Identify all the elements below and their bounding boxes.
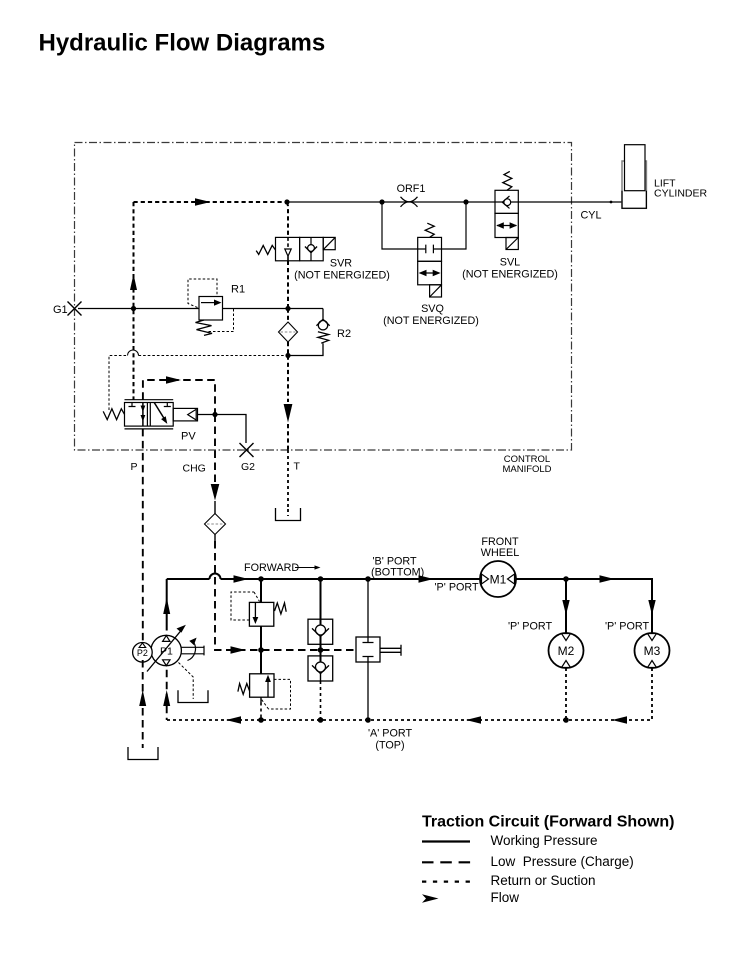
filter screen on return [279, 322, 298, 342]
svg-text:P: P [131, 461, 138, 473]
wire: supply dashed vertical x=133 (P to top line) [133, 202, 135, 400]
svg-text:'P' PORT: 'P' PORT [435, 582, 480, 594]
wire: return dashed with flow arrow to T [287, 356, 289, 403]
node: junction ORF1 left [379, 199, 384, 204]
relief valve R1 [196, 297, 223, 336]
R1 pilot dashed loop [188, 279, 217, 308]
wire: M2 return dotted [565, 668, 567, 720]
check valve 2 (A side) [320, 650, 322, 662]
wire: SVQ loop left vertical [382, 202, 418, 249]
flow arrow right on supply line [195, 198, 211, 205]
svg-text:Low Pressure (Charge): Low Pressure (Charge) [491, 854, 634, 869]
node: junction return/check2 [318, 717, 324, 723]
node: junction forward/check1 [318, 576, 324, 582]
svg-text:CYL: CYL [581, 210, 602, 222]
wire: forward pressure line [166, 579, 168, 631]
node: junction forward/B port [365, 576, 371, 582]
svg-text:SVL: SVL [500, 257, 520, 269]
node: junction PV/charge [212, 412, 217, 417]
flow arrow up on supply line [130, 274, 137, 290]
relief valve 2 [238, 674, 274, 697]
svg-text:M2: M2 [558, 644, 575, 658]
node: junction charge/check [318, 647, 324, 653]
svg-text:PV: PV [181, 431, 196, 443]
svg-text:G1: G1 [53, 304, 68, 316]
node: junction supply/G1 [131, 306, 136, 311]
P1 variable displacement arrow [147, 631, 181, 672]
wire: M3 return dotted [651, 668, 653, 720]
valve SVL [495, 171, 518, 249]
legend low pressure [422, 861, 471, 863]
svg-text:Traction Circuit (Forward Show: Traction Circuit (Forward Shown) [422, 814, 674, 831]
wire: charge line CHG down through border [214, 415, 216, 483]
node: junction charge/relief [258, 647, 264, 653]
wire: return dashed x=288 above SVR [287, 202, 288, 237]
test point G1 [68, 302, 82, 316]
valve SVR [256, 237, 335, 260]
node: junction return/A port [365, 717, 371, 723]
svg-text:T: T [294, 461, 301, 473]
svg-text:SVR: SVR [330, 258, 352, 270]
tank P2 [128, 747, 158, 760]
svg-text:(NOT ENERGIZED): (NOT ENERGIZED) [294, 270, 390, 282]
wire: SVQ loop right vertical [442, 202, 467, 249]
wire: supply dashed horizontal y=202 [134, 201, 288, 203]
control manifold enclosure [75, 143, 572, 451]
valve SVQ [418, 223, 442, 297]
node: junction forward/M2 [563, 576, 569, 582]
node: junction top line [284, 199, 289, 204]
wire: PV pilot output solid [198, 415, 247, 444]
wire: G1 line right segment [223, 308, 324, 310]
motor M2 [549, 633, 584, 668]
wire: return dashed x=288 SVR to G1 line [287, 261, 289, 309]
wire: return dashed to filter [287, 309, 289, 323]
wire: charge dash-dot loop from PV top [143, 380, 215, 415]
svg-text:Flow: Flow [491, 890, 520, 905]
legend working pressure [422, 840, 470, 842]
svg-text:CHG: CHG [183, 463, 206, 475]
node: CYL line endpoint [610, 201, 613, 204]
wire: relief2 connections [260, 650, 262, 674]
svg-text:CYLINDER: CYLINDER [654, 188, 708, 200]
check ball in SVR [308, 245, 315, 252]
wire: pilot dashed y=355.5 with hop over supply line [109, 356, 128, 411]
wire: P1 case drain [179, 663, 194, 700]
svg-text:ORF1: ORF1 [397, 183, 426, 195]
svg-text:M3: M3 [644, 644, 661, 658]
svg-text:(TOP): (TOP) [375, 740, 404, 752]
check valve 1 (B side) [320, 579, 322, 625]
node: junction forward/relief1 [258, 576, 264, 582]
tank case drain [178, 690, 208, 702]
svg-text:SVQ: SVQ [421, 303, 444, 315]
node: junction ORF1 right [463, 199, 468, 204]
check ball in SVL [504, 199, 511, 206]
motor M1 [480, 561, 516, 597]
svg-text:MANIFOLD: MANIFOLD [502, 464, 551, 475]
wire: relief1 connections [260, 579, 262, 650]
svg-text:(NOT ENERGIZED): (NOT ENERGIZED) [462, 269, 558, 281]
SVR left box return path [287, 237, 289, 247]
valve PV [103, 400, 197, 429]
motor M3 [635, 633, 670, 668]
node: junction return/G1 [285, 306, 290, 311]
wire: G1 line left segment [78, 308, 199, 310]
wire: return line below T port [287, 450, 289, 509]
svg-text:'P' PORT: 'P' PORT [508, 621, 553, 633]
svg-text:M1: M1 [490, 573, 507, 587]
wire: M2 feed [565, 579, 567, 633]
node: junction return/pilot [285, 353, 290, 358]
svg-text:G2: G2 [241, 461, 255, 473]
wire: charge line to traction circuit [215, 541, 356, 650]
check valve R2 [322, 309, 324, 320]
svg-text:R2: R2 [337, 328, 351, 340]
flushing shuttle valve [367, 579, 369, 637]
legend return or suction [422, 880, 471, 882]
relief valve 1 [249, 602, 286, 626]
svg-text:'P' PORT: 'P' PORT [605, 621, 650, 633]
orifice ORF1 [401, 197, 418, 207]
legend flow arrow [422, 894, 439, 902]
wire: return/suction dotted line y=720 [167, 719, 652, 721]
wire: CYL solid line to lift cylinder [287, 201, 622, 203]
svg-text:Working Pressure: Working Pressure [491, 833, 598, 848]
node: junction return/relief2 [258, 717, 264, 723]
lift cylinder [622, 161, 646, 208]
svg-text:'A' PORT: 'A' PORT [368, 728, 413, 740]
svg-text:R1: R1 [231, 284, 245, 296]
svg-text:WHEEL: WHEEL [481, 547, 519, 559]
wire: forward line after M1 [516, 579, 652, 633]
tank T [276, 508, 301, 521]
svg-text:FORWARD: FORWARD [244, 562, 299, 574]
wire: P line below manifold [142, 429, 144, 643]
svg-text:(NOT ENERGIZED): (NOT ENERGIZED) [383, 315, 479, 327]
wire: return dashed filter to pilot junction [287, 342, 289, 356]
filter on charge line [205, 514, 226, 535]
svg-text:Hydraulic Flow Diagrams: Hydraulic Flow Diagrams [39, 30, 326, 57]
wire: P2 suction to tank [142, 660, 144, 748]
wire: P1 suction from return line [166, 670, 168, 720]
svg-text:P2: P2 [137, 648, 148, 658]
R1 vent dashed [208, 309, 234, 332]
pump P1 [151, 635, 181, 665]
svg-text:Return or Suction: Return or Suction [491, 873, 596, 888]
pump P2 [133, 643, 153, 663]
svg-text:(BOTTOM): (BOTTOM) [371, 567, 424, 579]
P1 control lever [181, 646, 204, 656]
test point G2 [240, 443, 254, 457]
node: junction return/M2 [563, 717, 569, 723]
